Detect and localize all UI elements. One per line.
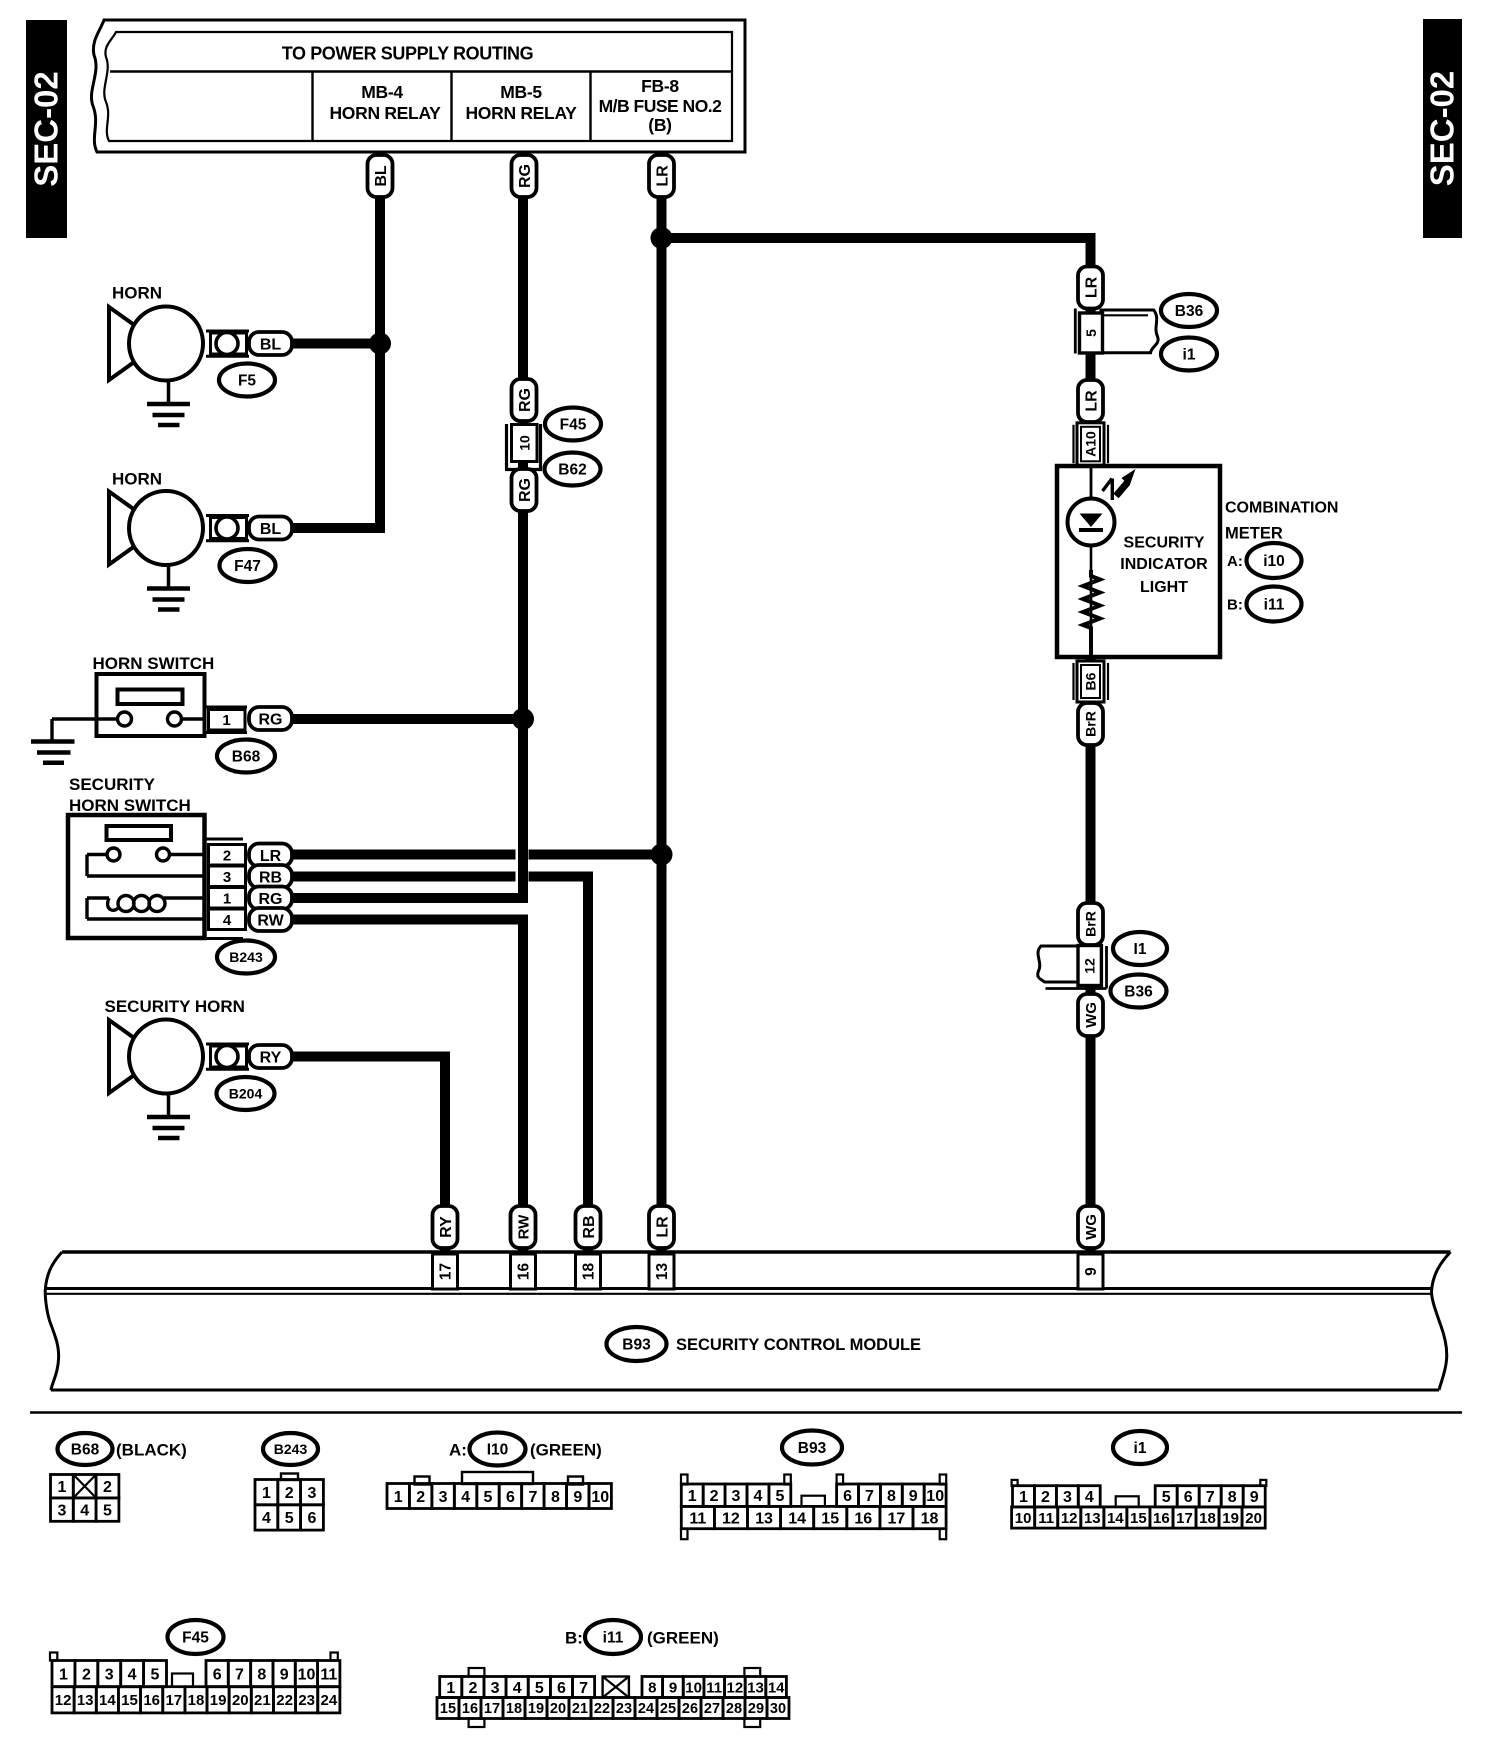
svg-text:14: 14 [99, 1692, 116, 1709]
pin 18 box [576, 1254, 601, 1289]
svg-text:10: 10 [1015, 1510, 1032, 1527]
svg-text:13: 13 [755, 1510, 773, 1527]
ground at horn switch [31, 742, 75, 763]
connector B243 ellipse [217, 941, 275, 974]
svg-text:1: 1 [1019, 1489, 1028, 1506]
label BL at horn F47 [249, 517, 292, 540]
wire LR column from FB-8 fuse [657, 150, 667, 1252]
svg-text:RG: RG [517, 478, 534, 502]
svg-text:16: 16 [1153, 1510, 1170, 1527]
label LR above connector B36/i1 [1078, 267, 1103, 309]
svg-text:(GREEN): (GREEN) [647, 1629, 719, 1648]
svg-text:RW: RW [515, 1214, 532, 1240]
svg-text:10: 10 [685, 1679, 702, 1696]
svg-text:17: 17 [888, 1510, 906, 1527]
label WG at module pin 9 [1078, 1206, 1103, 1248]
connector B243 pinout [255, 1474, 323, 1531]
horn F47 label [112, 470, 162, 489]
svg-text:8: 8 [887, 1488, 896, 1505]
svg-text:10: 10 [517, 435, 533, 451]
security horn label [105, 997, 245, 1016]
section divider line [30, 1411, 1462, 1414]
svg-text:20: 20 [550, 1701, 566, 1717]
svg-text:17: 17 [484, 1701, 500, 1717]
connector F45 ellipse [545, 408, 601, 441]
svg-text:RY: RY [438, 1216, 455, 1238]
svg-text:4: 4 [128, 1666, 137, 1683]
connector i11 footer label [565, 1620, 719, 1654]
svg-text:13: 13 [77, 1692, 94, 1709]
svg-text:4: 4 [223, 912, 232, 929]
connector 5 (B36/i1) half-connector [1075, 309, 1158, 354]
security horn switch label [69, 775, 191, 815]
svg-text:2: 2 [82, 1666, 91, 1683]
connector B243 footer label [263, 1433, 318, 1465]
svg-text:BL: BL [373, 165, 390, 187]
svg-text:LR: LR [654, 1216, 671, 1238]
wire horn switch to RG column [292, 714, 528, 724]
svg-text:i1: i1 [1134, 1440, 1147, 1457]
svg-text:4: 4 [1085, 1489, 1094, 1506]
label LR wire from FB-8 [649, 155, 674, 197]
svg-text:9: 9 [573, 1489, 582, 1506]
connector B204 ellipse [217, 1077, 275, 1110]
svg-text:5: 5 [535, 1680, 544, 1697]
svg-text:HORN SWITCH: HORN SWITCH [69, 796, 191, 815]
wire security horn switch row 2 LR segment a [292, 850, 516, 860]
svg-text:3: 3 [439, 1489, 448, 1506]
svg-text:(GREEN): (GREEN) [530, 1441, 602, 1460]
svg-text:RW: RW [257, 912, 284, 929]
svg-text:18: 18 [506, 1701, 522, 1717]
label RG above fuse [512, 379, 537, 421]
svg-text:15: 15 [440, 1701, 456, 1717]
node junction LR column / row 2 [651, 844, 673, 866]
horn switch label [93, 654, 215, 673]
svg-text:B93: B93 [798, 1440, 827, 1457]
label RG wire from MB-5 [512, 155, 537, 197]
svg-text:BL: BL [260, 336, 282, 353]
svg-text:1: 1 [688, 1488, 697, 1505]
node junction BL column / horn F5 [369, 333, 391, 355]
svg-text:15: 15 [121, 1692, 138, 1709]
svg-text:13: 13 [654, 1263, 671, 1281]
svg-text:i10: i10 [1263, 553, 1285, 570]
svg-text:5: 5 [285, 1510, 294, 1527]
connector F47 ellipse [220, 549, 276, 582]
svg-text:WG: WG [1083, 1002, 1100, 1028]
svg-text:10: 10 [591, 1489, 609, 1506]
svg-text:6: 6 [308, 1510, 317, 1527]
svg-text:16: 16 [516, 1263, 533, 1281]
svg-text:2: 2 [710, 1488, 719, 1505]
svg-text:8: 8 [648, 1679, 656, 1696]
svg-text:3: 3 [732, 1488, 741, 1505]
pin 9 box [1078, 1254, 1103, 1289]
svg-text:FB-8: FB-8 [641, 76, 679, 96]
wire horn switch to ground [52, 719, 97, 740]
pin A10 into combination meter [1074, 423, 1109, 466]
connector pin 1 at horn switch [205, 707, 248, 733]
svg-text:B68: B68 [232, 749, 261, 766]
svg-text:15: 15 [1130, 1510, 1147, 1527]
svg-text:2: 2 [416, 1489, 425, 1506]
svg-text:9: 9 [909, 1488, 918, 1505]
svg-text:A10: A10 [1083, 431, 1099, 457]
label BL at horn F5 [249, 332, 292, 355]
svg-text:LR: LR [260, 848, 282, 865]
svg-text:3: 3 [491, 1680, 500, 1697]
svg-text:11: 11 [706, 1679, 722, 1696]
power supply routing box [91, 20, 745, 152]
connector B68 pinout [51, 1475, 119, 1522]
wire security horn switch row 3 RB segment b + RB column [529, 877, 589, 1253]
connector B68 ellipse [217, 740, 275, 773]
svg-text:2: 2 [468, 1680, 477, 1697]
svg-text:14: 14 [1107, 1510, 1124, 1527]
svg-text:5: 5 [151, 1666, 160, 1683]
svg-text:METER: METER [1225, 524, 1283, 542]
svg-text:LR: LR [1083, 276, 1100, 298]
svg-text:27: 27 [704, 1701, 720, 1717]
svg-text:14: 14 [768, 1679, 785, 1696]
svg-text:18: 18 [581, 1263, 598, 1281]
connector I10 footer label [449, 1433, 602, 1466]
wire LR branch to combination meter [662, 238, 1091, 466]
wire WG column meter to module [1086, 657, 1096, 1252]
svg-text:19: 19 [528, 1701, 544, 1717]
horn F47 symbol [109, 491, 249, 610]
svg-text:3: 3 [1063, 1489, 1072, 1506]
svg-text:8: 8 [257, 1666, 266, 1683]
security horn switch box [68, 815, 205, 938]
svg-text:2: 2 [285, 1485, 294, 1502]
svg-text:1: 1 [223, 891, 231, 908]
svg-text:RY: RY [260, 1049, 282, 1066]
svg-text:INDICATOR: INDICATOR [1120, 556, 1208, 573]
svg-text:I10: I10 [487, 1442, 509, 1459]
connector I10 pinout [387, 1472, 611, 1509]
pin B6 out of combination meter [1074, 661, 1109, 702]
svg-text:11: 11 [1038, 1510, 1054, 1527]
svg-text:12: 12 [722, 1510, 740, 1527]
svg-text:16: 16 [854, 1510, 872, 1527]
svg-text:RB: RB [581, 1215, 598, 1238]
svg-text:5: 5 [484, 1489, 493, 1506]
svg-text:HORN: HORN [112, 284, 162, 303]
svg-text:28: 28 [726, 1701, 742, 1717]
label RY at module pin 17 [433, 1206, 458, 1248]
svg-text:BrR: BrR [1083, 911, 1099, 937]
svg-text:SEC-02: SEC-02 [28, 71, 65, 187]
svg-text:SECURITY: SECURITY [69, 775, 156, 794]
svg-text:F47: F47 [234, 558, 261, 575]
svg-text:24: 24 [638, 1701, 654, 1717]
security control module box [45, 1252, 1451, 1390]
svg-text:4: 4 [262, 1510, 271, 1527]
svg-text:B243: B243 [229, 949, 263, 965]
svg-text:1: 1 [57, 1479, 66, 1496]
svg-text:20: 20 [232, 1692, 249, 1709]
svg-text:B36: B36 [1175, 303, 1204, 320]
svg-text:3: 3 [223, 869, 231, 886]
svg-text:16: 16 [462, 1701, 478, 1717]
connector 12 (i1/B36) half-connector [1038, 946, 1107, 989]
svg-text:LIGHT: LIGHT [1140, 579, 1188, 596]
svg-text:6: 6 [557, 1680, 566, 1697]
horn F5 label [112, 284, 162, 303]
svg-text:12: 12 [55, 1692, 72, 1709]
svg-text:13: 13 [747, 1679, 764, 1696]
svg-text:COMBINATION: COMBINATION [1225, 499, 1338, 516]
right SEC-02 tab [1423, 19, 1462, 238]
svg-text:3: 3 [105, 1666, 114, 1683]
svg-text:7: 7 [865, 1488, 874, 1505]
svg-text:B204: B204 [229, 1086, 263, 1102]
svg-text:12: 12 [727, 1679, 744, 1696]
svg-text:B243: B243 [274, 1441, 308, 1457]
svg-text:LR: LR [654, 165, 671, 187]
svg-text:6: 6 [506, 1489, 515, 1506]
svg-text:17: 17 [438, 1263, 455, 1280]
svg-text:SECURITY: SECURITY [1124, 535, 1205, 552]
svg-text:1: 1 [394, 1489, 403, 1506]
svg-text:B6: B6 [1083, 672, 1099, 690]
svg-text:7: 7 [235, 1666, 244, 1683]
svg-text:30: 30 [770, 1701, 786, 1717]
svg-text:16: 16 [143, 1692, 160, 1709]
svg-text:24: 24 [321, 1692, 338, 1709]
svg-text:RG: RG [517, 388, 534, 412]
svg-text:5: 5 [1162, 1489, 1171, 1506]
svg-text:A:: A: [449, 1441, 467, 1460]
svg-text:BrR: BrR [1083, 711, 1099, 737]
connector B36 ellipse (top) [1161, 294, 1217, 327]
label WG below connector 12 [1078, 994, 1103, 1036]
left SEC-02 tab [26, 20, 67, 238]
label RG row 1 [249, 887, 292, 910]
svg-text:18: 18 [921, 1510, 939, 1527]
connector i11 pinout [437, 1668, 789, 1727]
svg-text:SECURITY CONTROL MODULE: SECURITY CONTROL MODULE [676, 1336, 921, 1354]
svg-text:7: 7 [1206, 1489, 1215, 1506]
svg-text:9: 9 [669, 1679, 677, 1696]
svg-text:WG: WG [1083, 1214, 1100, 1240]
svg-text:6: 6 [213, 1666, 222, 1683]
connector B36 ellipse (mid) [1111, 975, 1167, 1008]
svg-text:21: 21 [254, 1692, 271, 1709]
svg-text:17: 17 [165, 1692, 182, 1709]
svg-text:9: 9 [1250, 1489, 1259, 1506]
svg-text:2: 2 [103, 1479, 112, 1496]
svg-text:13: 13 [1084, 1510, 1101, 1527]
svg-text:7: 7 [528, 1489, 537, 1506]
wire RG column from MB-5 horn relay [518, 150, 528, 898]
label BL wire from MB-4 [368, 155, 393, 197]
svg-text:10: 10 [298, 1666, 316, 1683]
svg-text:9: 9 [1083, 1267, 1100, 1276]
svg-text:20: 20 [1245, 1510, 1262, 1527]
label B: i11 [1227, 587, 1302, 622]
svg-text:LR: LR [1083, 390, 1100, 412]
svg-text:I1: I1 [1134, 941, 1147, 958]
node junction LR column branch [651, 227, 673, 249]
horn F5 symbol [109, 307, 249, 426]
svg-text:19: 19 [1222, 1510, 1239, 1527]
svg-text:5: 5 [103, 1502, 112, 1519]
connector i1 footer label [1113, 1431, 1167, 1464]
node junction RG column / horn switch [512, 708, 534, 730]
svg-text:23: 23 [616, 1701, 632, 1717]
label RB row 3 [249, 865, 292, 888]
wire security horn switch row 3 RB segment a [292, 872, 516, 882]
svg-text:(B): (B) [648, 115, 671, 135]
svg-text:26: 26 [682, 1701, 698, 1717]
svg-text:1: 1 [262, 1485, 271, 1502]
svg-text:8: 8 [551, 1489, 560, 1506]
svg-text:B:: B: [1227, 597, 1243, 614]
svg-text:i1: i1 [1183, 347, 1196, 364]
svg-text:B36: B36 [1124, 984, 1153, 1001]
fuse 10 (F45/B62) [505, 424, 542, 470]
label RW at module pin 16 [511, 1206, 536, 1248]
svg-text:MB-5: MB-5 [500, 82, 542, 102]
svg-text:B:: B: [565, 1629, 583, 1648]
svg-text:i11: i11 [1264, 597, 1285, 614]
svg-text:4: 4 [80, 1502, 89, 1519]
svg-text:15: 15 [821, 1510, 839, 1527]
svg-text:25: 25 [660, 1701, 676, 1717]
combination meter label [1225, 499, 1338, 542]
wire BL column from MB-4 horn relay [375, 150, 385, 528]
security horn symbol [109, 1020, 249, 1139]
label BrR above connector i1/B36 [1078, 903, 1103, 945]
svg-text:22: 22 [276, 1692, 293, 1709]
wire horn F47 to BL column corner [292, 523, 385, 533]
wire security horn switch row 2 LR segment b [529, 850, 662, 860]
svg-text:RG: RG [259, 711, 283, 728]
connector F5 ellipse [219, 364, 275, 397]
svg-text:6: 6 [843, 1488, 852, 1505]
svg-text:22: 22 [594, 1701, 610, 1717]
security control module label [676, 1336, 921, 1354]
svg-text:11: 11 [689, 1510, 706, 1527]
connector B68 footer label [58, 1433, 187, 1465]
svg-text:HORN RELAY: HORN RELAY [329, 103, 441, 123]
label RW row 4 [249, 908, 292, 931]
svg-text:2: 2 [223, 848, 231, 865]
connector F45 footer label [168, 1620, 224, 1654]
connector i1 ellipse (top) [1161, 338, 1217, 371]
svg-text:19: 19 [210, 1692, 227, 1709]
svg-text:SECURITY HORN: SECURITY HORN [105, 997, 245, 1016]
svg-text:1: 1 [446, 1680, 455, 1697]
svg-text:1: 1 [59, 1666, 68, 1683]
label A: i10 [1227, 543, 1302, 578]
label LR row 2 [249, 844, 292, 867]
pin 17 box [433, 1254, 458, 1289]
wire security horn switch row 4 RW + RW column [292, 920, 523, 1253]
svg-text:6: 6 [1184, 1489, 1193, 1506]
connector F45 pinout [50, 1653, 340, 1713]
label LR above A10 [1078, 380, 1103, 422]
svg-text:17: 17 [1176, 1510, 1193, 1527]
connector pins 2/3/1/4 at security horn switch [205, 839, 246, 939]
svg-text:5: 5 [1083, 329, 1099, 337]
svg-text:3: 3 [308, 1485, 317, 1502]
connector B93 pinout [681, 1475, 946, 1540]
svg-text:14: 14 [788, 1510, 806, 1527]
svg-text:4: 4 [461, 1489, 470, 1506]
svg-text:2: 2 [1041, 1489, 1050, 1506]
connector I1 ellipse (mid) [1113, 932, 1167, 965]
connector B93 footer label [782, 1431, 842, 1465]
svg-text:4: 4 [513, 1680, 522, 1697]
svg-text:5: 5 [775, 1488, 784, 1505]
label RB at module pin 18 [576, 1206, 601, 1248]
svg-text:RG: RG [259, 891, 283, 908]
svg-text:RB: RB [259, 869, 282, 886]
wire security horn switch row 1 RG [292, 893, 528, 903]
label RG at horn switch [249, 707, 292, 730]
svg-text:MB-4: MB-4 [361, 82, 403, 102]
label RG below fuse [512, 469, 537, 511]
svg-text:B62: B62 [558, 462, 586, 479]
svg-text:BL: BL [260, 521, 282, 538]
svg-text:RG: RG [517, 164, 534, 188]
svg-text:21: 21 [572, 1701, 588, 1717]
svg-text:12: 12 [1082, 958, 1098, 974]
pin 16 box [511, 1254, 536, 1289]
svg-text:12: 12 [1061, 1510, 1078, 1527]
svg-text:3: 3 [57, 1502, 66, 1519]
connector B93 ellipse at module [607, 1327, 667, 1361]
svg-text:SEC-02: SEC-02 [1424, 71, 1461, 187]
connector i1 pinout [1012, 1480, 1267, 1528]
pin 13 box [649, 1254, 674, 1289]
svg-text:F45: F45 [560, 417, 587, 434]
svg-text:F5: F5 [238, 373, 256, 390]
svg-text:10: 10 [926, 1488, 944, 1505]
svg-text:A:: A: [1227, 553, 1243, 570]
horn switch box [97, 674, 205, 736]
svg-text:(BLACK): (BLACK) [116, 1441, 187, 1460]
svg-text:HORN RELAY: HORN RELAY [465, 103, 577, 123]
svg-text:18: 18 [1199, 1510, 1216, 1527]
label RY at security horn [249, 1045, 292, 1068]
svg-text:18: 18 [188, 1692, 205, 1709]
svg-text:11: 11 [320, 1666, 337, 1683]
label LR at module pin 13 [649, 1206, 674, 1248]
svg-text:29: 29 [748, 1701, 764, 1717]
svg-text:HORN SWITCH: HORN SWITCH [93, 654, 215, 673]
label BrR below meter [1078, 703, 1103, 745]
wire horn F5 to BL column [292, 339, 385, 349]
connector B62 ellipse [545, 453, 601, 486]
svg-text:8: 8 [1228, 1489, 1237, 1506]
svg-text:23: 23 [298, 1692, 315, 1709]
combination meter security indicator light [1057, 466, 1220, 657]
svg-text:M/B FUSE NO.2: M/B FUSE NO.2 [599, 96, 723, 116]
svg-text:9: 9 [280, 1666, 289, 1683]
svg-text:HORN: HORN [112, 470, 162, 489]
svg-text:B68: B68 [71, 1442, 100, 1459]
svg-text:F45: F45 [182, 1630, 209, 1647]
wire security horn B204 + RY column [292, 1057, 445, 1253]
svg-text:B93: B93 [622, 1337, 651, 1354]
svg-text:TO POWER SUPPLY ROUTING: TO POWER SUPPLY ROUTING [282, 44, 534, 64]
svg-text:i11: i11 [603, 1630, 624, 1647]
